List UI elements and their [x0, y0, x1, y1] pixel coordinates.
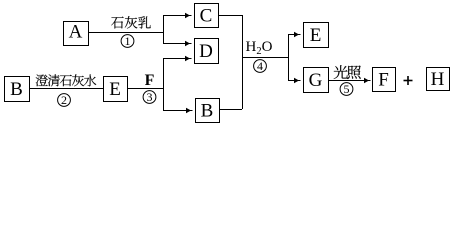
- wire from A to junction 1: [88, 32, 163, 33]
- wire from E to junction 2 (F line): [127, 88, 163, 89]
- svg-text:D: D: [199, 41, 213, 62]
- junction 2 vertical (splits to D and bottom B): [163, 58, 164, 110]
- circled step number 1: [121, 34, 134, 48]
- circled step number 4: [254, 59, 267, 73]
- wire from bottom B to right collector bus: [219, 109, 242, 110]
- box D: [195, 39, 219, 64]
- arrow branch into right E: [288, 32, 301, 37]
- box B (left, reactant B): [5, 77, 30, 102]
- svg-text:C: C: [200, 6, 213, 27]
- svg-text:H2O: H2O: [246, 39, 273, 57]
- arrow branch into D (upper): [163, 41, 192, 46]
- H2O reaction wire to junction 3: [242, 57, 288, 58]
- arrow from G to F (reaction 5): [328, 78, 371, 83]
- arrow branch into G: [288, 78, 301, 83]
- circled step number 3: [143, 90, 156, 104]
- svg-text:F: F: [378, 70, 389, 91]
- box F (product): [373, 68, 396, 92]
- wire from B to E (reaction 2): [29, 88, 103, 89]
- wire from C to right collector bus: [218, 15, 242, 16]
- label "光照" (light irradiation) above wire 5: [334, 65, 361, 79]
- svg-text:F: F: [145, 72, 155, 89]
- svg-text:H: H: [431, 69, 445, 90]
- svg-text:3: 3: [147, 90, 153, 104]
- junction 1 vertical (splits to C and D): [163, 15, 164, 43]
- box A (reactant A): [64, 22, 89, 46]
- box H (product): [427, 68, 450, 91]
- svg-text:1: 1: [125, 34, 131, 48]
- svg-text:2: 2: [61, 93, 67, 107]
- arrow branch into C: [163, 13, 192, 18]
- svg-text:E: E: [310, 25, 322, 46]
- svg-text:G: G: [309, 70, 323, 91]
- circled step number 2: [58, 93, 71, 107]
- junction 3 vertical (splits to E and G): [288, 34, 289, 80]
- svg-text:B: B: [10, 79, 23, 100]
- box E (middle product): [104, 77, 128, 102]
- right collector bus vertical: [242, 15, 243, 109]
- box E (right product): [304, 23, 329, 48]
- box G: [304, 68, 329, 93]
- svg-text:A: A: [69, 22, 83, 43]
- arrow branch into D (lower): [163, 56, 192, 61]
- box B (bottom product): [196, 99, 220, 123]
- plus sign between box F and box H: [404, 76, 413, 85]
- box C (top product): [195, 4, 219, 28]
- svg-text:5: 5: [344, 82, 350, 96]
- svg-text:4: 4: [257, 59, 263, 73]
- arrow branch into bottom B: [163, 108, 193, 113]
- label "澄清石灰水" (clarified limewater) above wire 2: [36, 74, 97, 86]
- svg-text:B: B: [201, 101, 214, 122]
- circled step number 5: [340, 82, 353, 96]
- svg-text:E: E: [109, 79, 121, 100]
- label "石灰乳" (lime milk) above wire 1: [111, 16, 151, 28]
